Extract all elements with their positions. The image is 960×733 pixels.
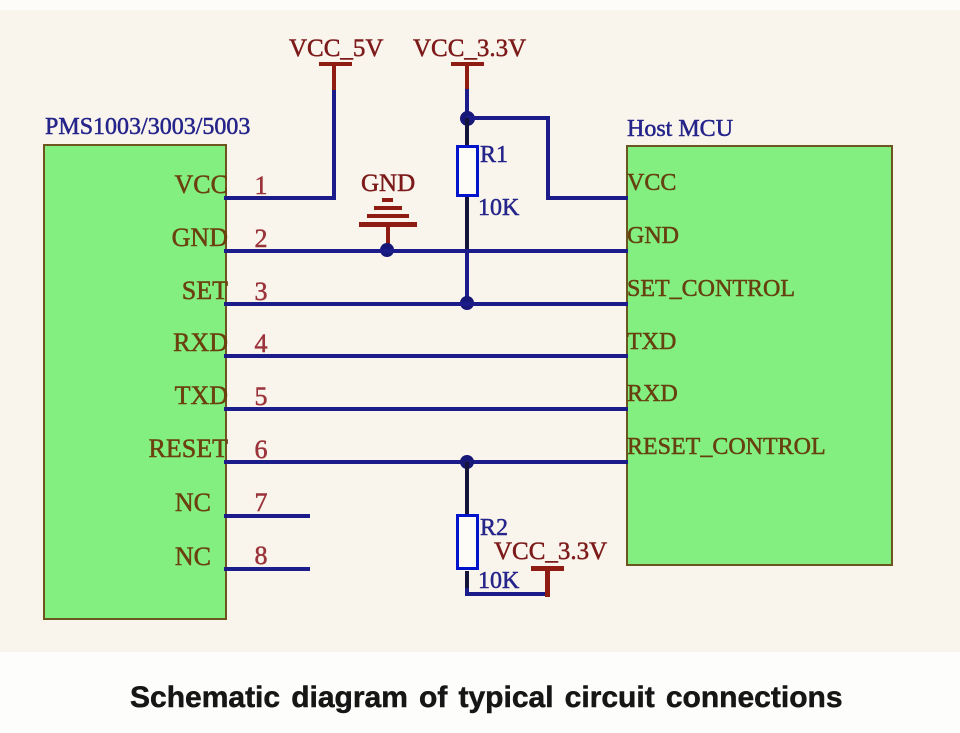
resistor R2 top pin stub — [465, 462, 469, 514]
power symbol GND bar 3 — [367, 214, 409, 218]
node C junction dot on GND wire — [380, 243, 394, 257]
wire R2 bottom vertical — [465, 588, 469, 596]
power symbol VCC_3.3V stem (bottom) — [545, 570, 550, 597]
caption text — [130, 683, 843, 713]
power symbol GND bar 1 — [382, 198, 393, 202]
pin label RESET_CONTROL (U2) — [627, 435, 826, 459]
node B junction dot on SET wire — [460, 296, 474, 310]
pin label TXD (U2) — [627, 330, 676, 354]
pin number 1 — [247, 173, 275, 199]
resistor R2 bottom pin stub — [465, 571, 469, 592]
pin label NC (U1 pin 7) — [41, 490, 211, 516]
wire node A to host VCC: horizontal into U2 — [546, 196, 628, 200]
component U1 PMS1003/3003/5003 block — [43, 144, 227, 620]
label R1 value 10K — [478, 196, 519, 220]
power symbol VCC_3.3V bar (top) — [451, 62, 484, 66]
pin number 5 — [247, 384, 275, 410]
component U2 Host MCU block — [626, 145, 893, 566]
resistor R1 body — [456, 145, 479, 197]
wire RXD pin4 to host TXD — [224, 354, 628, 358]
pin label GND (U1 pin 2) — [58, 225, 228, 251]
pin number 6 — [247, 437, 275, 463]
pin number 2 — [247, 226, 275, 252]
power symbol VCC_3.3V stem (top) — [465, 64, 469, 89]
wire node A to host VCC: vertical — [546, 116, 550, 200]
pin label VCC (U2) — [627, 171, 676, 195]
pin label GND (U2) — [627, 224, 679, 248]
label R2 — [480, 516, 508, 540]
wire pin1 VCC horizontal — [224, 196, 336, 200]
pin label RXD (U1 pin 4) — [58, 330, 228, 356]
power symbol GND label — [361, 171, 415, 196]
pin number 8 — [247, 543, 275, 569]
wire R2 bottom L to VCC_3.3V (bottom) — [465, 592, 548, 596]
wire VCC_3.3V to node A — [465, 89, 469, 119]
power symbol GND stem — [386, 227, 390, 248]
label U2 title Host MCU — [627, 117, 733, 141]
pin number 3 — [247, 279, 275, 305]
power symbol GND bar 2 — [374, 206, 402, 210]
wire R1 bottom to node B — [465, 252, 469, 305]
wire RESET pin6 to host RESET_CONTROL — [224, 460, 628, 464]
wire NC pin7 stub — [224, 514, 310, 518]
wire TXD pin5 to host RXD — [224, 407, 628, 411]
power symbol VCC_5V bar — [319, 62, 352, 66]
power symbol VCC_3.3V bar (bottom) — [531, 566, 564, 571]
pin label NC (U1 pin 8) — [41, 544, 211, 570]
node A junction dot — [460, 111, 475, 126]
node D junction dot on RESET wire — [460, 455, 474, 469]
wire pin1 VCC vertical drop from VCC_5V — [332, 90, 336, 200]
wire node A to host VCC: horizontal — [465, 116, 550, 120]
pin label RESET (U1 pin 6) — [58, 436, 228, 462]
power symbol GND bar 4 — [359, 222, 417, 227]
label R1 — [480, 143, 508, 167]
label R2 value 10K — [478, 569, 519, 593]
resistor R1 top pin stub — [465, 118, 469, 146]
power symbol VCC_5V stem — [332, 64, 336, 90]
pin label SET_CONTROL (U2) — [627, 277, 795, 301]
power symbol VCC_3.3V label (top) — [413, 36, 526, 61]
pin number 4 — [247, 331, 275, 357]
power symbol VCC_3.3V label (bottom) — [494, 539, 607, 564]
pin label SET (U1 pin 3) — [58, 278, 228, 304]
resistor R1 bottom pin stub — [465, 197, 469, 252]
pin label VCC (U1 pin 1) — [58, 172, 228, 198]
label U1 title PMS1003/3003/5003 — [45, 115, 250, 139]
wire SET pin3 to host SET_CONTROL — [224, 302, 628, 306]
wire GND pin2 to host GND — [224, 249, 628, 253]
power symbol VCC_5V label — [289, 36, 383, 61]
wire NC pin8 stub — [224, 567, 310, 571]
pin label TXD (U1 pin 5) — [58, 383, 228, 409]
resistor R2 body — [456, 514, 479, 570]
pin label RXD (U2) — [627, 382, 678, 406]
pin number 7 — [247, 490, 275, 516]
